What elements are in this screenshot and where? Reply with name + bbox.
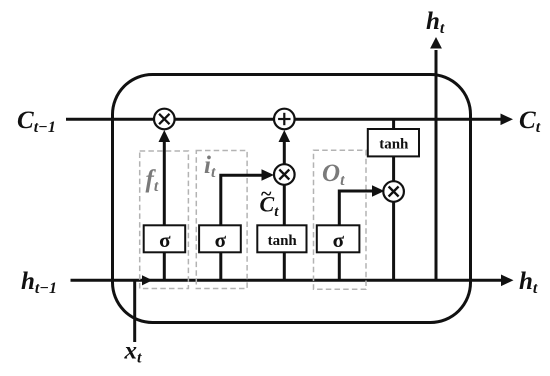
arrowhead into candidate multiply node xyxy=(262,169,275,181)
svg-text:xt: xt xyxy=(124,338,143,367)
svg-text:tanh: tanh xyxy=(379,137,409,153)
wire: tanh box to output multiply xyxy=(392,156,395,182)
svg-text:σ: σ xyxy=(333,228,345,252)
arrowhead into add node xyxy=(279,130,291,142)
wire: hidden-state line h xyxy=(71,279,502,282)
wire: forget gate vertical xyxy=(163,140,166,280)
svg-text:ft: ft xyxy=(146,166,159,195)
svg-text:Ct−1: Ct−1 xyxy=(17,107,56,136)
sigma box forget xyxy=(144,225,186,252)
svg-text:tanh: tanh xyxy=(268,233,298,249)
multiply node forget xyxy=(154,109,175,130)
svg-text:Ct: Ct xyxy=(519,107,541,136)
wire: output gate vertical + horizontal xyxy=(339,191,374,280)
arrowhead h_t top xyxy=(430,37,442,49)
tanh box candidate xyxy=(257,225,306,252)
wire: candidate multiply to add xyxy=(283,140,286,165)
arrowhead h_t right xyxy=(501,275,514,287)
sigma box input xyxy=(199,225,241,252)
wire: x_t input xyxy=(133,280,136,342)
svg-text:σ: σ xyxy=(215,228,227,252)
wire: input gate vertical + horizontal xyxy=(221,175,263,280)
dashed box forget gate xyxy=(140,151,189,289)
wire: candidate tanh vertical xyxy=(283,175,286,280)
svg-text:~: ~ xyxy=(261,183,272,205)
add node xyxy=(274,109,295,130)
LSTM cell body xyxy=(113,75,471,323)
wire: cell-state line C xyxy=(66,118,501,121)
svg-text:ht: ht xyxy=(519,268,538,297)
dashed box output gate xyxy=(314,150,367,289)
wire: output multiply down to h line xyxy=(392,202,395,281)
arrowhead C_t xyxy=(501,114,514,126)
multiply node candidate xyxy=(274,164,295,185)
svg-text:ht: ht xyxy=(426,8,445,37)
wire: C to tanh box xyxy=(392,119,395,131)
arrowhead into multiply node xyxy=(159,130,171,142)
sigma box output xyxy=(317,225,360,252)
multiply node output xyxy=(383,181,404,202)
tanh box top xyxy=(368,129,419,156)
label C~_t xyxy=(260,183,280,220)
dashed box input gate xyxy=(196,151,247,289)
wire: h_t up branch xyxy=(435,50,438,280)
svg-text:it: it xyxy=(204,152,216,181)
arrowhead merge on h line xyxy=(142,275,153,285)
svg-text:σ: σ xyxy=(159,228,171,252)
svg-text:ht−1: ht−1 xyxy=(21,268,57,297)
svg-text:Ot: Ot xyxy=(322,160,345,189)
arrowhead into output multiply node xyxy=(372,185,384,197)
